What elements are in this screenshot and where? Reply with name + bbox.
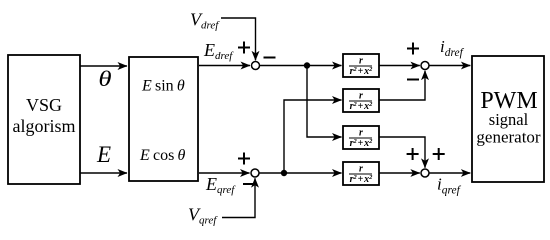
svg-text:Vdref: Vdref <box>190 10 220 32</box>
svg-text:E: E <box>96 142 111 167</box>
svg-text:r2 + x2: r2 + x2 <box>350 174 374 185</box>
svg-text:r: r <box>359 91 363 102</box>
svg-text:Vqref: Vqref <box>188 205 218 227</box>
svg-text:θ: θ <box>98 67 111 91</box>
svg-text:r: r <box>359 164 363 175</box>
svg-text:E cos θ: E cos θ <box>139 147 186 164</box>
svg-text:iqref: iqref <box>437 175 462 197</box>
svg-text:VSG: VSG <box>26 95 62 115</box>
svg-text:r: r <box>359 128 363 139</box>
svg-text:r2 + x2: r2 + x2 <box>350 66 374 77</box>
svg-text:r2 + x2: r2 + x2 <box>350 138 374 149</box>
svg-text:Edref: Edref <box>203 40 234 62</box>
svg-text:r2 + x2: r2 + x2 <box>350 101 374 112</box>
svg-text:generator: generator <box>476 128 541 147</box>
svg-text:E sin θ: E sin θ <box>141 78 185 95</box>
svg-text:Eqref: Eqref <box>205 174 236 196</box>
svg-text:r: r <box>359 56 363 67</box>
svg-text:algorism: algorism <box>13 116 76 136</box>
svg-text:signal: signal <box>489 110 529 129</box>
svg-text:idref: idref <box>440 37 465 59</box>
